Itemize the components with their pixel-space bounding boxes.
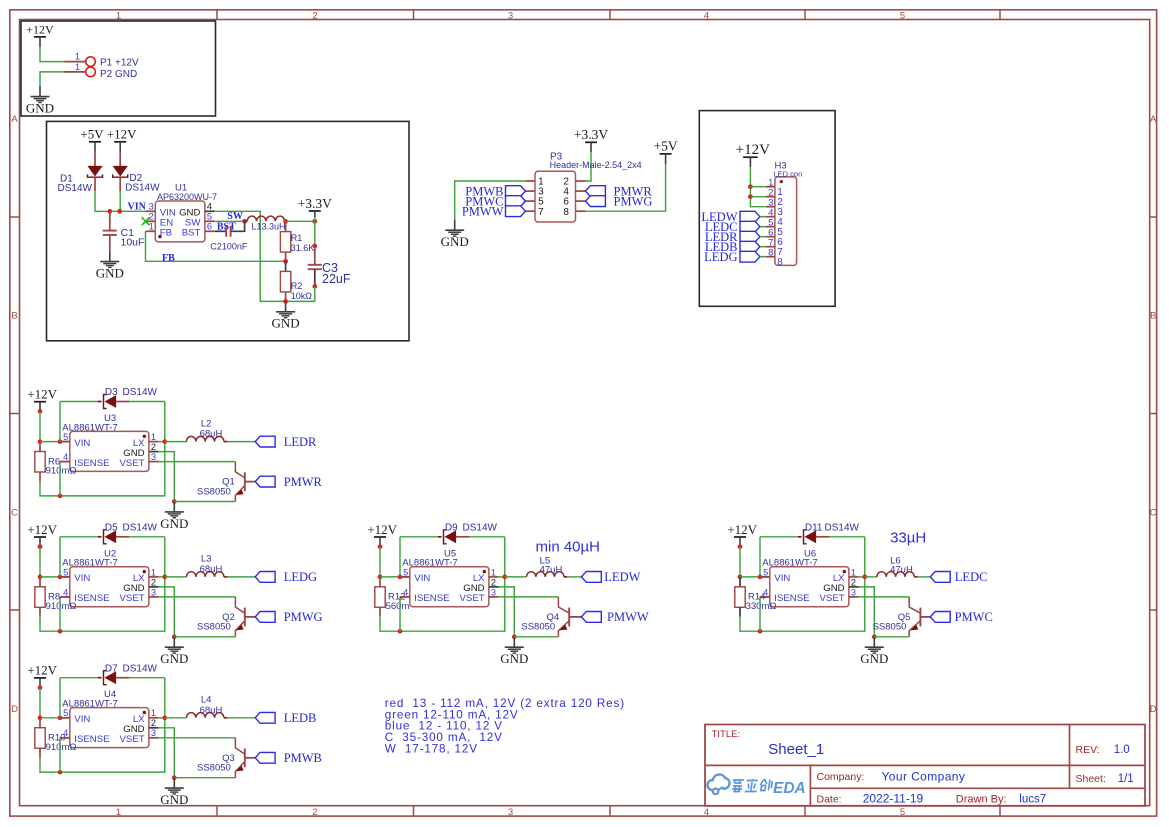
svg-text:5: 5 <box>403 567 408 577</box>
svg-text:DS14W: DS14W <box>123 387 158 398</box>
svg-text:P1 +12V: P1 +12V <box>100 57 139 68</box>
svg-text:910mΩ: 910mΩ <box>46 601 77 612</box>
svg-text:3: 3 <box>851 587 856 597</box>
svg-text:REV:: REV: <box>1076 744 1100 756</box>
svg-text:AL8861WT-7: AL8861WT-7 <box>762 558 817 569</box>
svg-text:D9: D9 <box>445 523 458 534</box>
svg-text:D3: D3 <box>105 387 118 398</box>
svg-text:4: 4 <box>704 10 709 21</box>
svg-text:LEDG: LEDG <box>704 250 737 264</box>
svg-text:2: 2 <box>851 577 856 587</box>
svg-text:PMWR: PMWR <box>284 475 323 489</box>
svg-text:SS8050: SS8050 <box>197 763 231 774</box>
svg-text:4: 4 <box>704 807 709 818</box>
svg-text:LEDR: LEDR <box>284 435 317 449</box>
svg-text:47uH: 47uH <box>890 565 913 576</box>
svg-text:AL8861WT-7: AL8861WT-7 <box>62 699 117 710</box>
svg-text:A: A <box>1150 114 1157 125</box>
svg-text:W 17-178, 12V: W 17-178, 12V <box>385 742 478 755</box>
svg-text:DS14W: DS14W <box>825 523 860 534</box>
svg-text:GND: GND <box>26 101 54 116</box>
svg-text:VIN: VIN <box>414 573 430 584</box>
svg-text:D5: D5 <box>105 523 118 534</box>
svg-text:5: 5 <box>207 212 212 222</box>
svg-text:560m: 560m <box>386 601 410 612</box>
svg-text:4: 4 <box>207 202 212 212</box>
svg-text:B: B <box>11 311 17 322</box>
svg-text:min 40µH: min 40µH <box>536 539 601 556</box>
svg-text:+12V: +12V <box>367 522 397 537</box>
svg-text:ISENSE: ISENSE <box>414 593 449 604</box>
svg-text:5: 5 <box>900 807 905 818</box>
svg-text:2: 2 <box>312 807 317 818</box>
svg-text:GND: GND <box>272 316 300 331</box>
svg-text:Your Company: Your Company <box>882 769 966 783</box>
svg-text:1: 1 <box>491 567 496 577</box>
svg-text:3: 3 <box>151 728 156 738</box>
svg-text:L13.3uH: L13.3uH <box>252 222 286 232</box>
svg-text:68uH: 68uH <box>200 705 223 716</box>
svg-text:BST: BST <box>182 228 201 239</box>
svg-text:FB: FB <box>162 253 175 264</box>
svg-text:1: 1 <box>116 10 121 21</box>
svg-text:Sheet:: Sheet: <box>1076 773 1106 785</box>
svg-text:A: A <box>11 114 18 125</box>
svg-text:DS14W: DS14W <box>125 183 160 194</box>
svg-text:VSET: VSET <box>460 593 485 604</box>
svg-text:LEDG: LEDG <box>284 570 317 584</box>
svg-text:SS8050: SS8050 <box>197 622 231 633</box>
svg-text:910mΩ: 910mΩ <box>46 466 77 477</box>
svg-text:GND: GND <box>160 651 188 666</box>
svg-text:3: 3 <box>491 587 496 597</box>
svg-text:10uF: 10uF <box>121 237 145 249</box>
svg-text:+12V: +12V <box>727 522 757 537</box>
svg-text:3: 3 <box>151 587 156 597</box>
svg-text:Sheet_1: Sheet_1 <box>768 741 824 758</box>
svg-text:5: 5 <box>763 567 768 577</box>
svg-text:C2100nF: C2100nF <box>210 241 248 251</box>
svg-text:1/1: 1/1 <box>1118 773 1134 785</box>
svg-text:GND: GND <box>160 516 188 531</box>
svg-text:68uH: 68uH <box>200 564 223 575</box>
svg-text:Drawn By:: Drawn By: <box>956 794 1007 806</box>
svg-text:LEDB: LEDB <box>284 711 317 725</box>
svg-text:1: 1 <box>75 62 80 72</box>
svg-text:3: 3 <box>151 452 156 462</box>
svg-text:FB: FB <box>160 228 172 239</box>
svg-text:22uF: 22uF <box>322 272 351 286</box>
svg-text:B: B <box>1150 311 1156 322</box>
svg-text:10kΩ: 10kΩ <box>291 291 313 301</box>
svg-text:EDA: EDA <box>773 780 806 797</box>
svg-text:DS14W: DS14W <box>463 523 498 534</box>
svg-text:VIN: VIN <box>774 573 790 584</box>
svg-text:2: 2 <box>312 10 317 21</box>
svg-text:PMWG: PMWG <box>614 194 653 208</box>
svg-text:VIN: VIN <box>74 714 90 725</box>
svg-text:DS14W: DS14W <box>123 523 158 534</box>
svg-text:TITLE:: TITLE: <box>712 729 741 740</box>
svg-text:D7: D7 <box>105 663 118 674</box>
svg-text:1.0: 1.0 <box>1114 744 1130 756</box>
svg-text:68uH: 68uH <box>200 429 223 440</box>
svg-text:Date:: Date: <box>817 794 842 806</box>
svg-text:8: 8 <box>777 257 783 268</box>
svg-text:PMWW: PMWW <box>607 610 649 624</box>
svg-text:D11: D11 <box>805 523 823 534</box>
svg-text:PMWB: PMWB <box>284 751 322 765</box>
svg-text:BST: BST <box>217 221 236 232</box>
svg-text:ISENSE: ISENSE <box>74 593 109 604</box>
svg-text:DS14W: DS14W <box>58 183 93 194</box>
svg-text:Header-Male-2.54_2x4: Header-Male-2.54_2x4 <box>550 160 642 170</box>
svg-text:DS14W: DS14W <box>123 663 158 674</box>
svg-text:VSET: VSET <box>120 458 145 469</box>
svg-text:+5V: +5V <box>80 127 104 142</box>
svg-text:Company:: Company: <box>817 771 865 783</box>
svg-text:R2: R2 <box>291 281 303 291</box>
svg-text:1: 1 <box>151 708 156 718</box>
svg-text:3: 3 <box>508 807 513 818</box>
svg-text:AP63200WU-7: AP63200WU-7 <box>157 192 217 202</box>
svg-text:330mΩ: 330mΩ <box>746 601 777 612</box>
svg-text:PMWG: PMWG <box>284 610 323 624</box>
svg-text:D: D <box>1150 704 1157 715</box>
svg-text:GND: GND <box>500 651 528 666</box>
svg-text:4: 4 <box>63 587 68 597</box>
svg-text:C: C <box>1150 507 1157 518</box>
svg-text:SS8050: SS8050 <box>521 622 555 633</box>
svg-text:3: 3 <box>508 10 513 21</box>
svg-text:+3.3V: +3.3V <box>298 196 332 211</box>
svg-text:2: 2 <box>491 577 496 587</box>
svg-text:33µH: 33µH <box>890 530 926 547</box>
svg-text:GND: GND <box>160 792 188 807</box>
svg-text:SW: SW <box>227 211 243 222</box>
svg-text:SS8050: SS8050 <box>197 486 231 497</box>
svg-text:ISENSE: ISENSE <box>74 734 109 745</box>
svg-text:VSET: VSET <box>120 593 145 604</box>
svg-text:31.6K: 31.6K <box>291 243 315 253</box>
svg-text:P2 GND: P2 GND <box>100 69 137 80</box>
svg-text:+12V: +12V <box>27 663 57 678</box>
svg-text:VSET: VSET <box>820 593 845 604</box>
svg-text:47uH: 47uH <box>540 565 563 576</box>
svg-text:2: 2 <box>151 718 156 728</box>
svg-text:2: 2 <box>149 212 154 222</box>
svg-text:D: D <box>11 704 18 715</box>
svg-text:1: 1 <box>116 807 121 818</box>
svg-text:6: 6 <box>207 222 212 232</box>
svg-text:SS8050: SS8050 <box>873 622 907 633</box>
svg-text:VIN: VIN <box>128 201 147 212</box>
svg-text:+3.3V: +3.3V <box>574 127 608 142</box>
svg-text:AL8861WT-7: AL8861WT-7 <box>402 558 457 569</box>
svg-text:1: 1 <box>75 52 80 62</box>
svg-text:+12V: +12V <box>27 522 57 537</box>
svg-text:AL8861WT-7: AL8861WT-7 <box>62 422 117 433</box>
svg-text:1: 1 <box>151 432 156 442</box>
svg-text:4: 4 <box>63 452 68 462</box>
svg-text:VIN: VIN <box>74 438 90 449</box>
svg-text:1: 1 <box>851 567 856 577</box>
svg-text:910mΩ: 910mΩ <box>46 742 77 753</box>
svg-text:7: 7 <box>538 207 544 218</box>
svg-text:LED con: LED con <box>774 169 803 178</box>
svg-text:+12V: +12V <box>27 387 57 402</box>
svg-text:+12V: +12V <box>26 23 54 37</box>
svg-text:VSET: VSET <box>120 734 145 745</box>
svg-text:5: 5 <box>63 567 68 577</box>
svg-text:LEDW: LEDW <box>604 570 640 584</box>
svg-text:8: 8 <box>768 248 773 259</box>
svg-text:2: 2 <box>151 442 156 452</box>
svg-text:1: 1 <box>151 567 156 577</box>
svg-text:LEDC: LEDC <box>955 570 988 584</box>
svg-text:R1: R1 <box>291 233 303 243</box>
svg-text:2022-11-19: 2022-11-19 <box>863 792 924 806</box>
svg-text:AL8861WT-7: AL8861WT-7 <box>62 558 117 569</box>
svg-text:5: 5 <box>900 10 905 21</box>
svg-text:+12V: +12V <box>736 142 770 158</box>
svg-text:C: C <box>11 507 18 518</box>
svg-text:PMWC: PMWC <box>955 610 993 624</box>
svg-text:GND: GND <box>441 234 469 249</box>
svg-text:1: 1 <box>149 222 154 232</box>
svg-text:3: 3 <box>149 202 154 212</box>
svg-text:2: 2 <box>151 577 156 587</box>
svg-text:GND: GND <box>96 266 124 281</box>
svg-text:GND: GND <box>860 651 888 666</box>
svg-text:5: 5 <box>63 432 68 442</box>
svg-text:ISENSE: ISENSE <box>74 458 109 469</box>
svg-text:PMWW: PMWW <box>462 205 504 219</box>
svg-text:ISENSE: ISENSE <box>774 593 809 604</box>
svg-text:8: 8 <box>563 207 569 218</box>
svg-text:+5V: +5V <box>654 139 678 154</box>
svg-text:5: 5 <box>63 708 68 718</box>
svg-text:+12V: +12V <box>107 127 137 142</box>
svg-text:lucs7: lucs7 <box>1019 794 1046 806</box>
svg-text:VIN: VIN <box>74 573 90 584</box>
